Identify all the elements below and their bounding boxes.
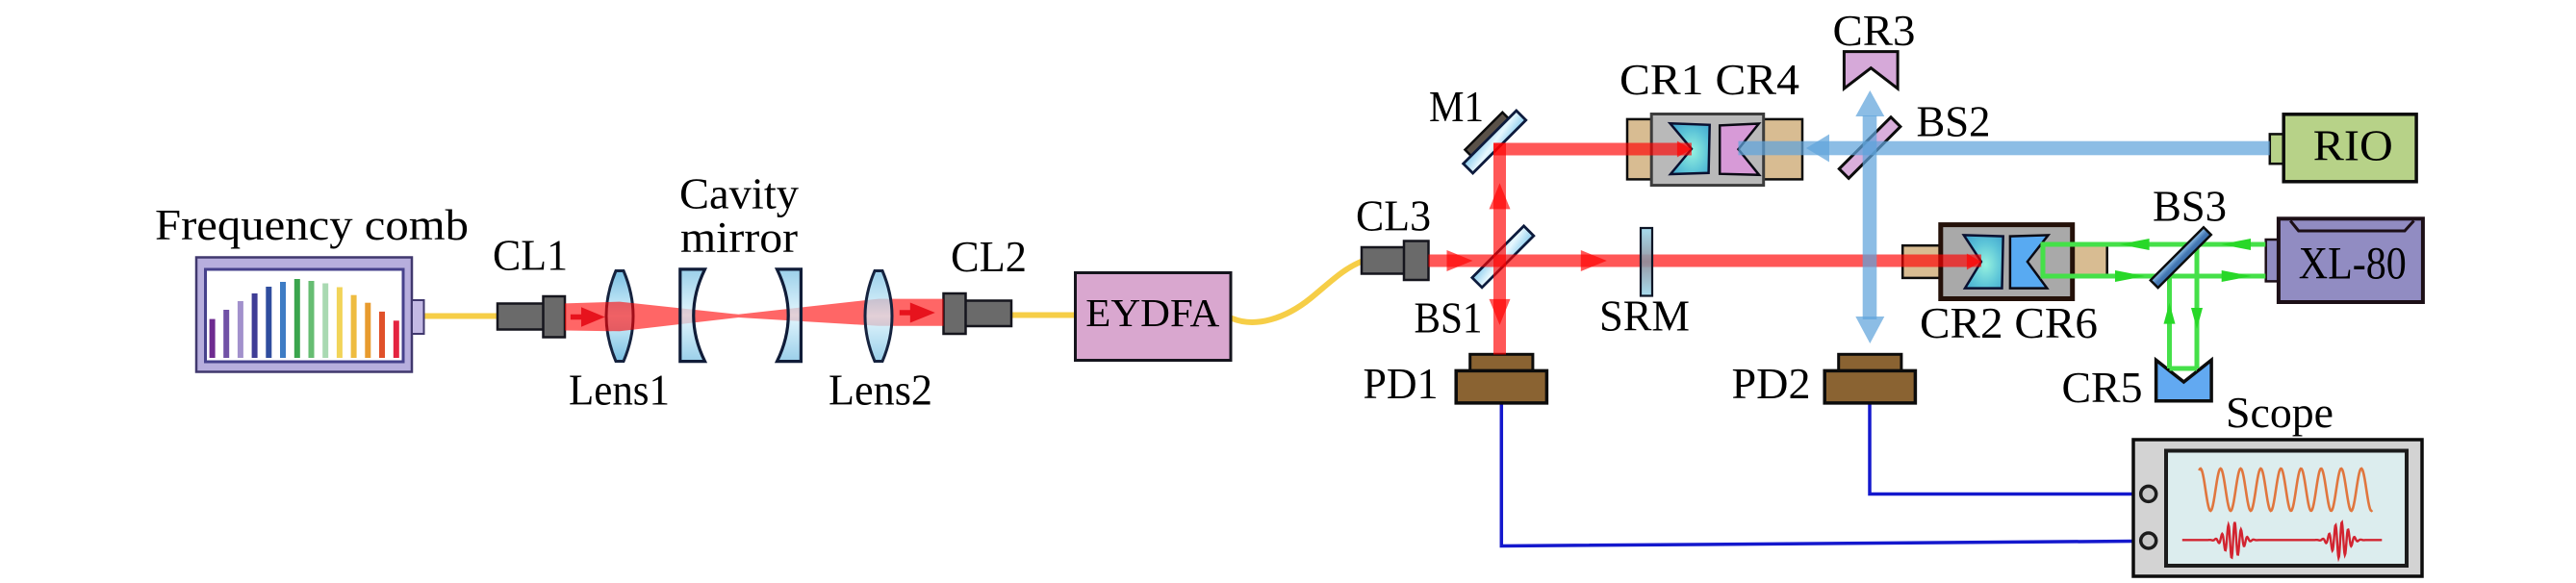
svg-text:CR1 CR4: CR1 CR4 [1620,55,1799,104]
svg-text:CR5: CR5 [2062,363,2143,412]
svg-text:CL2: CL2 [951,232,1027,281]
svg-text:CL1: CL1 [493,231,568,280]
svg-text:BS2: BS2 [1917,96,1991,145]
svg-text:M1: M1 [1429,82,1484,131]
svg-text:Cavity: Cavity [679,169,799,218]
svg-text:CL3: CL3 [1356,191,1431,241]
svg-text:PD2: PD2 [1732,359,1811,408]
svg-text:Lens1: Lens1 [569,365,670,414]
svg-text:PD1: PD1 [1364,359,1439,408]
svg-text:BS3: BS3 [2153,182,2227,231]
svg-text:EYDFA: EYDFA [1085,291,1219,335]
svg-text:RIO: RIO [2313,120,2393,169]
svg-text:CR2 CR6: CR2 CR6 [1920,298,2098,347]
svg-text:CR3: CR3 [1833,6,1916,55]
svg-text:Frequency comb: Frequency comb [155,200,469,249]
svg-text:mirror: mirror [680,213,798,262]
svg-text:Scope: Scope [2226,388,2334,437]
svg-text:SRM: SRM [1599,291,1690,341]
svg-text:Lens2: Lens2 [829,365,932,414]
svg-text:XL-80: XL-80 [2299,239,2407,290]
svg-text:BS1: BS1 [1415,293,1483,342]
